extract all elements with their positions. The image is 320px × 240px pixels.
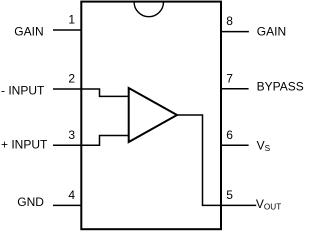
svg-text:BYPASS: BYPASS <box>257 79 304 93</box>
svg-text:4: 4 <box>68 188 75 202</box>
svg-text:VOUT: VOUT <box>256 197 281 211</box>
svg-text:GAIN: GAIN <box>14 24 43 38</box>
op-amp output wire to pin 5 <box>177 115 256 205</box>
svg-text:1: 1 <box>68 13 75 27</box>
svg-text:GAIN: GAIN <box>257 25 286 39</box>
pin 1 wire <box>53 29 82 31</box>
svg-text:2: 2 <box>68 72 75 86</box>
svg-text:7: 7 <box>226 71 233 85</box>
svg-text:5: 5 <box>226 188 233 202</box>
pin 4 wire <box>53 204 82 206</box>
pin 6 wire <box>221 144 249 146</box>
svg-text:+ INPUT: + INPUT <box>1 138 48 152</box>
svg-text:6: 6 <box>226 128 233 142</box>
op-amp U1 triangle <box>129 88 177 142</box>
pin-1 end notch (semicircle) <box>134 2 163 17</box>
svg-text:VS: VS <box>257 139 271 153</box>
svg-text:3: 3 <box>68 128 75 142</box>
pin 8 wire <box>221 31 249 33</box>
IC package body U1 <box>81 2 221 230</box>
pin 2 wire with step to op-amp inverting input <box>53 89 129 96</box>
pin 7 wire <box>221 88 249 90</box>
svg-text:8: 8 <box>226 14 233 28</box>
svg-text:GND: GND <box>17 195 44 209</box>
pin 3 wire with step to op-amp non-inverting input <box>53 136 129 146</box>
svg-text:- INPUT: - INPUT <box>1 84 45 98</box>
